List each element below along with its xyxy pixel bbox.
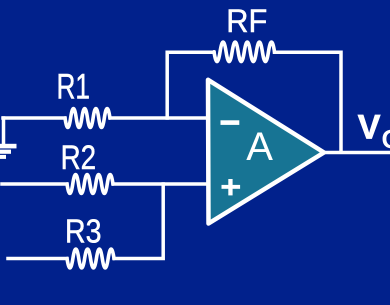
svg-text:V: V bbox=[358, 109, 381, 147]
svg-text:R3: R3 bbox=[65, 212, 102, 249]
svg-text:RF: RF bbox=[226, 3, 267, 39]
svg-text:A: A bbox=[246, 125, 273, 169]
svg-text:R2: R2 bbox=[61, 139, 97, 177]
svg-text:O: O bbox=[382, 124, 390, 154]
svg-text:R1: R1 bbox=[57, 67, 91, 106]
